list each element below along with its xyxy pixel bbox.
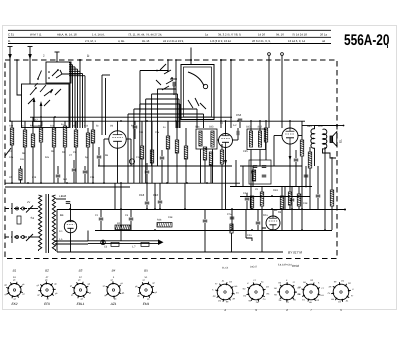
bus y230 (95, 230, 332, 232)
svg-text:B3: B3 (79, 269, 83, 273)
socket view EBL1 designator (79, 269, 83, 273)
svg-text:R4n: R4n (45, 156, 50, 159)
svg-text:B4: B4 (112, 269, 116, 273)
cap C1 psu (95, 210, 103, 231)
svg-text:S10: S10 (63, 178, 68, 181)
svg-text:1M: 1M (303, 281, 306, 284)
tube socket bottom-view EBL1 (70, 279, 92, 301)
svg-text:B2: B2 (45, 269, 49, 273)
detector shield box (249, 160, 271, 184)
tube B2 (EF9) (219, 134, 233, 148)
cap C38 (251, 166, 256, 187)
svg-text:C 31: C 31 (8, 32, 14, 36)
resistor R4 (63, 126, 67, 147)
wire bundle from switch (69, 63, 85, 129)
svg-text:C48: C48 (168, 216, 173, 219)
svg-text:S42: S42 (246, 126, 251, 129)
wire A2 drop (29, 60, 31, 84)
svg-text:S10: S10 (139, 131, 144, 134)
svg-text:C7a: C7a (227, 213, 232, 216)
label B5 (274, 209, 278, 212)
svg-text:C2a: C2a (155, 131, 160, 134)
socket label AZ1 (110, 302, 117, 306)
svg-text:1M: 1M (274, 287, 277, 290)
arrowhead heater (158, 239, 164, 245)
AVC arrow B2 (224, 160, 227, 165)
wire x266 (265, 121, 267, 160)
oscillator box SK2 (46, 62, 71, 83)
svg-text:24 2.2 21 A 19 9,: 24 2.2 21 A 19 9, (163, 39, 184, 43)
resistor R10 (175, 140, 179, 153)
label D (43, 54, 90, 59)
cap C44 (245, 193, 250, 209)
cap C23 (160, 150, 165, 183)
cap C16 (97, 147, 102, 166)
svg-text:RL 16: RL 16 (142, 39, 150, 43)
wire y196 (240, 196, 310, 198)
svg-text:S1a: S1a (50, 125, 55, 128)
wire x142 (141, 121, 143, 183)
cap C5-2 (233, 124, 239, 140)
socket view AZ1 designator (112, 269, 116, 273)
cap C40 (290, 187, 295, 231)
resistor R30 (297, 187, 301, 210)
svg-text:C35: C35 (243, 150, 248, 153)
svg-text:S14: S14 (84, 125, 89, 128)
tube B5 (EM1 tuning indicator) (266, 216, 280, 230)
wire spk top (315, 124, 345, 129)
svg-text:C18: C18 (139, 193, 145, 197)
svg-text:B5: B5 (144, 269, 148, 273)
svg-text:34, 3.2 /5, 6 7/8, 9,: 34, 3.2 /5, 6 7/8, 9, (218, 32, 242, 36)
svg-text:S18: S18 (9, 125, 14, 128)
wire x232 down (231, 209, 233, 230)
svg-text:8Y02: 8Y02 (292, 264, 299, 268)
svg-text:R2a: R2a (263, 214, 268, 217)
resistor R2 psu (115, 222, 130, 230)
socket header 2xC47 (250, 266, 258, 269)
bus y252 (57, 251, 283, 253)
svg-text:S1: S1 (31, 216, 35, 220)
socket view AZ1 pin note (113, 276, 115, 279)
svg-text:R,: R, (8, 39, 11, 43)
cap C44b (256, 209, 261, 230)
switch stroke left edge (5, 148, 11, 156)
svg-text:W M T (1: W M T (1 (30, 32, 42, 36)
resistor R3 (52, 128, 56, 147)
wire x251 (250, 121, 252, 209)
tube B4 (AZ1 rectifier) (64, 220, 76, 232)
screen terminal circle (129, 159, 134, 164)
wire x76 (75, 121, 77, 183)
svg-text:C16: C16 (90, 176, 95, 179)
cap C50 (304, 175, 309, 177)
svg-text:73, 11, W, 44, 74, 44 27 24,: 73, 11, W, 44, 74, 44 27 24, (128, 32, 162, 36)
tube B3 leads (274, 121, 302, 187)
svg-text:94, 16: 94, 16 (276, 32, 284, 36)
resistor R20 (203, 147, 207, 160)
resistor R22 (250, 196, 254, 208)
wire top to osc (140, 70, 168, 113)
bus y187 left (5, 186, 130, 188)
cap C36 (253, 166, 267, 168)
dial lamp (101, 240, 106, 245)
tube B3 (EBL1) (282, 128, 298, 144)
svg-text:EK2: EK2 (11, 302, 17, 306)
chassis boundary (dashed border) (5, 60, 337, 259)
resistor R33 (330, 190, 334, 206)
svg-text:C56: C56 (236, 113, 242, 117)
socket label EM1 (143, 302, 150, 306)
label S1 (31, 216, 35, 220)
svg-text:1M: 1M (110, 125, 113, 128)
cap C19 (56, 166, 61, 183)
svg-text:13 44 6, 9, 14: 13 44 6, 9, 14 (288, 39, 306, 43)
wire B3 anode to OT (302, 125, 315, 127)
wire box to top (56, 60, 58, 62)
coil S5 (31, 134, 35, 147)
switch contacts SK lower (28, 85, 61, 106)
transformer core (46, 194, 49, 253)
wire drop x231 (230, 59, 232, 128)
wire x185 down (184, 183, 186, 209)
svg-text:C44: C44 (243, 192, 248, 195)
wire x345 stub (337, 209, 346, 211)
socket view EF9 designator (45, 269, 49, 273)
svg-text:C48: C48 (303, 202, 308, 205)
cap C6 row (104, 242, 149, 248)
tube B1 (EK2) (109, 131, 126, 148)
coil S6 (39, 128, 43, 142)
tick near title (387, 45, 389, 48)
pickup cap C56 (236, 113, 242, 128)
label EL (339, 139, 343, 143)
resistor R23 (260, 192, 264, 206)
wire x200 down (200, 149, 202, 183)
bus chassis y117 (30, 116, 232, 118)
resistor R6b (91, 130, 95, 143)
labels IF (220, 122, 248, 153)
svg-text:1.8 (3 R 9, 13 44: 1.8 (3 R 9, 13 44 (210, 39, 231, 43)
wire drop x221 (220, 59, 222, 128)
wire x332 (331, 157, 333, 230)
wire x12 (11, 121, 13, 183)
wire x211b (210, 165, 212, 183)
svg-text:R19: R19 (273, 189, 278, 192)
cap C18 (139, 183, 149, 209)
cap C49 (316, 187, 321, 210)
resistor R11 (184, 146, 188, 159)
svg-text:2: 2 (285, 308, 288, 312)
wire x177 (176, 121, 178, 183)
socket header 1-6 (222, 267, 229, 270)
wiring-side socket view 1 (212, 279, 239, 303)
svg-text:1M: 1M (341, 279, 344, 282)
svg-text:14 26: 14 26 (258, 32, 265, 36)
svg-text:AB,A, M, 14, 18: AB,A, M, 14, 18 (57, 32, 77, 36)
resistor R2 (23, 130, 27, 147)
svg-text:C4a: C4a (247, 234, 252, 237)
label B4 (60, 213, 64, 217)
figure number 9 (255, 308, 257, 312)
wire x246 hook (246, 209, 252, 241)
wire x262 low (261, 230, 263, 252)
heater bus y241 (88, 241, 158, 244)
svg-text:2H: 2H (329, 285, 332, 288)
svg-text:75 14 24 18: 75 14 24 18 (292, 32, 307, 36)
wire x306 (305, 166, 307, 187)
wiring-side socket view 4 (298, 279, 325, 304)
AVC arrow B3 (289, 156, 292, 161)
IF transformer S40a/S41 (195, 126, 217, 150)
gram input socket 1 (268, 53, 271, 128)
wire x65 (64, 121, 66, 183)
oscillator switch contacts (156, 64, 173, 90)
tube B5 leads (262, 209, 273, 231)
wire x302 (301, 121, 303, 230)
tube socket bottom-view EF9 (37, 279, 59, 301)
wire x57 drop (56, 210, 58, 253)
svg-text:1 4, 14 (4,: 1 4, 14 (4, (92, 32, 105, 36)
labels EM1 area (243, 188, 282, 237)
svg-text:C19: C19 (32, 176, 37, 179)
IF transformer S42/S43 (second IF can pair) (246, 126, 266, 150)
svg-text:C10: C10 (153, 193, 159, 197)
wire x93 (92, 121, 94, 183)
wire x88 (87, 128, 89, 183)
cap C4 mid (203, 209, 208, 252)
socket view EBL1 pin note (79, 276, 82, 279)
parts-list table header (8, 30, 331, 43)
resistor R25 (280, 196, 284, 209)
wiring-side socket view 5 (328, 279, 355, 303)
bus HT y121 (10, 120, 305, 122)
grid cap C14 (133, 121, 138, 139)
svg-text:2xC47: 2xC47 (250, 266, 258, 269)
svg-text:44: 44 (322, 39, 326, 43)
svg-text:4, BL: 4, BL (118, 39, 125, 43)
resistor R6a (86, 133, 90, 147)
socket view EK2 pin note (13, 276, 16, 279)
cap C42 (294, 150, 299, 187)
svg-text:R26: R26 (157, 219, 162, 222)
cap C7a (227, 213, 234, 219)
heater wires from S1 (55, 240, 88, 245)
svg-text:B5: B5 (274, 209, 278, 212)
wiring-side socket view 3 (274, 279, 301, 304)
mains voltage selector (17, 216, 21, 224)
svg-text:AZ1: AZ1 (110, 302, 117, 306)
svg-text:1M: 1M (243, 294, 246, 297)
socket label EK2 (11, 302, 17, 306)
tube B2 leads (217, 121, 238, 209)
wire x236 down (235, 160, 237, 187)
figure number 2 (285, 308, 288, 312)
wire x310 (309, 147, 311, 209)
socket view EK2 designator (13, 269, 17, 273)
svg-text:556A-20: 556A-20 (344, 32, 390, 49)
wire x205b (204, 160, 206, 183)
socket view EF9 pin note (46, 276, 49, 279)
wire x88 drop (87, 231, 89, 241)
mains switch strokes (26, 206, 33, 242)
stamp BY017M (288, 251, 302, 255)
bandswitch box SK1 (22, 84, 70, 128)
mains transformer S1 secondary (52, 195, 55, 251)
cap C13 (83, 166, 88, 183)
tuning gang C1/C2 (dial drive box) (181, 65, 214, 120)
svg-text:21,C4: 21,C4 (222, 267, 229, 270)
tube socket bottom-view EM1 (135, 279, 158, 301)
figure number 5 (340, 308, 342, 312)
wire x33 (32, 117, 34, 183)
wire x282 (281, 187, 283, 231)
resistor R40 (230, 224, 233, 252)
wire x115 down (114, 183, 116, 209)
wire x243 down (242, 166, 244, 187)
wire x212 down (212, 149, 214, 183)
svg-text:S4a: S4a (195, 126, 200, 129)
cap C46 (61, 194, 70, 203)
cap C10 (153, 183, 162, 209)
wire x41 (40, 117, 42, 183)
wire x318 upper (317, 166, 319, 187)
labels left band (9, 150, 77, 155)
wire x260 (259, 121, 261, 166)
svg-text:1a: 1a (205, 32, 209, 36)
wire x285 down (284, 187, 286, 210)
tap labels S1 (59, 195, 63, 241)
svg-text:26 3.2 21, 6, 9,: 26 3.2 21, 6, 9, (252, 39, 271, 43)
svg-text:EL: EL (339, 139, 343, 143)
svg-text:EF9: EF9 (44, 302, 50, 306)
resistor R18 (300, 140, 304, 156)
label 2V (27, 201, 30, 204)
svg-text:C46: C46 (61, 194, 67, 198)
svg-text:5,6,C37+C34: 5,6,C37+C34 (278, 264, 292, 267)
socket label EBL1 (77, 302, 85, 306)
wire x155 down (154, 183, 156, 209)
resistor R7 (140, 146, 144, 159)
tube socket bottom-view AZ1 (103, 279, 125, 301)
wave-change switch contacts SK upper (35, 69, 63, 86)
svg-text:1M: 1M (218, 300, 221, 303)
bus AVC y183 (5, 182, 240, 184)
wire switch to gang (62, 59, 81, 74)
resistor R17 (264, 128, 268, 142)
resistor R1 (10, 128, 14, 145)
cap C48 label (303, 202, 308, 205)
svg-text:S43: S43 (209, 126, 214, 129)
svg-text:B1: B1 (13, 269, 17, 273)
wire pair x102 (102, 75, 110, 135)
socket view EM1 designator (144, 269, 148, 273)
wire spk bottom (315, 148, 337, 166)
wire x121 down (120, 183, 122, 241)
mains input plug (5, 203, 38, 243)
wire x325 (324, 147, 326, 230)
wire x168 (167, 121, 169, 183)
figure number 7 (310, 308, 312, 312)
socket view EM1 pin note (145, 276, 148, 279)
wire antenna A1 drop (10, 59, 22, 121)
figure number 4 (224, 308, 226, 312)
switch wiper arrow 1 (33, 97, 36, 121)
earth terminal E (55, 52, 60, 60)
bus y166 right (240, 165, 302, 167)
svg-text:BY 017 M: BY 017 M (288, 251, 302, 255)
resistor R8 (150, 150, 154, 163)
cap C3 psu (125, 210, 133, 231)
padder cap C17 box (33, 119, 43, 127)
wire rect top (56, 199, 71, 252)
wire x54 (53, 117, 55, 183)
trimmer C3 (170, 79, 177, 95)
resistor R19 (288, 187, 291, 210)
tube B1 leads (104, 121, 131, 183)
svg-text:26 1a: 26 1a (320, 32, 327, 36)
vertical feeds into gang (167, 59, 177, 90)
bus y166 left (98, 165, 232, 167)
socket label EF9 (44, 302, 50, 306)
dial drive terminal (190, 48, 192, 65)
resistor R5 (74, 130, 78, 147)
socket header C37 C34 (278, 264, 292, 267)
svg-text:2 9, M, 1: 2 9, M, 1 (85, 39, 96, 43)
svg-text:S1n: S1n (20, 158, 25, 161)
switch wiper arrow 2 (40, 101, 43, 121)
resistor R9 (166, 136, 170, 149)
output transformer S45/S46 (307, 125, 327, 149)
wire x25 (24, 121, 26, 183)
wiring-side socket view 2 (243, 279, 271, 304)
stamp 8Y02 (292, 264, 299, 268)
svg-text:C4a: C4a (9, 156, 14, 159)
wire x152 (151, 121, 153, 183)
resistor R16 (252, 170, 255, 181)
staircase wiring switch-to-coils (128, 89, 204, 183)
resistor R34 (308, 152, 312, 168)
bus y186 right (230, 186, 312, 188)
svg-text:EBL1: EBL1 (77, 302, 85, 306)
cap C17 (145, 163, 150, 183)
mains transformer S1 primary (39, 195, 42, 251)
cap C75 (72, 160, 77, 183)
gram input socket 2 (281, 53, 284, 128)
svg-text:2V: 2V (27, 201, 30, 204)
wire x186 (185, 128, 187, 183)
volume control R24 (220, 144, 224, 209)
title 556A-20 (344, 32, 390, 49)
bus HT2 y209 (57, 209, 345, 211)
antenna terminal A2 (28, 47, 33, 61)
coil S40 (19, 166, 22, 183)
cap C37 (262, 175, 267, 177)
tube socket bottom-view EK2 (4, 279, 25, 301)
loudspeaker (330, 132, 337, 147)
label R19 (273, 189, 278, 192)
svg-text:1,7: 1,7 (132, 246, 136, 249)
antenna terminal A1 (8, 47, 13, 61)
resistor R26 (157, 216, 173, 227)
component row labels (9, 123, 166, 181)
resistor R21 (209, 152, 213, 165)
svg-text:B4: B4 (60, 213, 64, 217)
wire x262 (261, 187, 263, 231)
svg-text:EM1: EM1 (143, 302, 150, 306)
